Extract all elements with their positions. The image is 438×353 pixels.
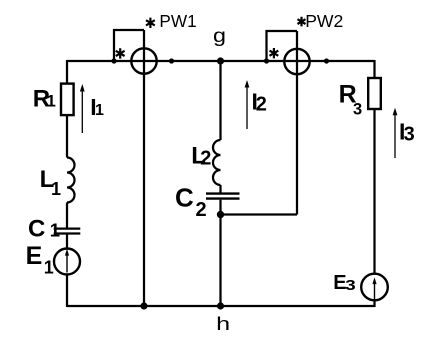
wattmeter PW1 bracket	[114, 30, 144, 61]
wattmeter PW1 voltage lead vertical	[143, 30, 145, 306]
label PW1	[159, 11, 196, 31]
node dot left of PW1	[111, 58, 116, 63]
svg-text:g: g	[213, 26, 226, 47]
node dot C2 bottom junction	[217, 211, 224, 218]
svg-text:h: h	[216, 314, 230, 334]
wire L1 to C1	[66, 203, 68, 228]
svg-text:1: 1	[44, 258, 54, 278]
svg-text:1: 1	[46, 91, 55, 110]
label PW2	[305, 11, 343, 31]
capacitor C2	[175, 182, 240, 221]
capacitor C1	[28, 215, 80, 242]
wire C2 to bottom rail	[219, 200, 221, 307]
wire PW2 lead horizontal to C2 node	[221, 213, 298, 215]
resistor R3	[339, 78, 381, 119]
wattmeter PW1 polarity asterisk (bracket)	[116, 48, 125, 58]
wire bottom rail h-row	[67, 305, 375, 307]
node g	[213, 26, 226, 65]
svg-text:3: 3	[345, 277, 356, 294]
wire E1 to bottom rail	[66, 275, 68, 308]
wattmeter PW2 voltage lead vertical	[296, 31, 298, 215]
wire E3 to bottom rail	[373, 300, 375, 307]
svg-text:1: 1	[51, 179, 61, 199]
wattmeter PW2 polarity asterisk (bracket)	[270, 48, 279, 58]
wire R3 to E3	[373, 109, 375, 274]
svg-text:C: C	[28, 215, 45, 242]
inductor L2	[191, 140, 220, 185]
wattmeter PW2	[284, 49, 309, 74]
svg-text:2: 2	[256, 94, 267, 116]
wire L2 to C2	[219, 185, 221, 193]
node dot right of PW2	[324, 58, 329, 63]
source E3	[333, 272, 388, 300]
svg-text:2: 2	[196, 199, 207, 221]
svg-text:3: 3	[353, 101, 362, 119]
label PW2 asterisk	[298, 17, 306, 27]
svg-text:E: E	[26, 242, 43, 270]
svg-text:PW2: PW2	[305, 11, 343, 31]
label PW1 asterisk	[146, 18, 155, 28]
wire right branch upper	[373, 60, 375, 78]
wire middle branch upper	[219, 61, 221, 140]
wire R1 to L1	[66, 115, 68, 157]
wattmeter PW1	[131, 48, 156, 73]
wire C1 to E1	[66, 235, 68, 250]
node h label	[216, 314, 230, 334]
wire left branch upper	[66, 60, 68, 84]
svg-text:1: 1	[50, 219, 60, 240]
current arrow I3	[393, 108, 415, 158]
inductor L1	[40, 158, 75, 203]
svg-text:PW1: PW1	[159, 11, 196, 31]
node dot PW1 lead on bottom rail	[140, 302, 147, 309]
wire top rail g-row	[67, 60, 375, 62]
svg-text:2: 2	[200, 148, 211, 170]
source E1	[26, 242, 80, 278]
node dot right of PW1	[169, 58, 174, 63]
node dot middle branch on bottom rail	[217, 302, 224, 309]
current arrow I1	[80, 84, 104, 133]
wattmeter PW2 bracket	[267, 31, 298, 61]
svg-text:1: 1	[95, 102, 104, 119]
svg-text:3: 3	[404, 124, 415, 146]
node dot left of PW2	[264, 58, 269, 63]
resistor R1	[33, 84, 74, 116]
current arrow I2	[245, 80, 267, 129]
svg-text:C: C	[175, 182, 194, 212]
